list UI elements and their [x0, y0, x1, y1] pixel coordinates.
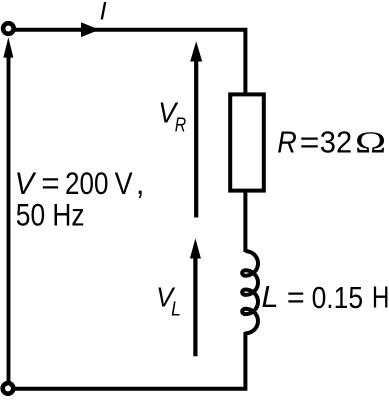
svg-text:0.15: 0.15: [312, 281, 364, 315]
svg-text:L: L: [262, 280, 279, 314]
svg-text:200: 200: [65, 165, 108, 201]
wire: left vertical (source branch): [7, 50, 11, 381]
svg-text:=: =: [300, 126, 320, 160]
svg-text:H: H: [372, 281, 389, 315]
svg-text:,: ,: [136, 165, 145, 201]
svg-text:Ω: Ω: [354, 126, 386, 160]
arrowhead: current I on top wire: [81, 22, 99, 37]
svg-text:V: V: [15, 165, 37, 201]
inductor L1 (coil, 4 turns): [242, 251, 258, 333]
svg-text:50 Hz: 50 Hz: [16, 197, 85, 233]
svg-text:V: V: [115, 165, 133, 201]
wire: inductor down + bottom horizontal to terminal: [15, 332, 246, 389]
svg-text:R: R: [277, 126, 297, 160]
arrow VL (voltage across inductor, points up): [193, 255, 197, 356]
svg-text:R: R: [175, 114, 186, 136]
terminal (top-left): [3, 23, 14, 34]
resistor R1 (rectangle): [230, 94, 264, 190]
svg-text:=: =: [287, 281, 305, 315]
wire: resistor to inductor: [243, 190, 247, 252]
svg-text:=: =: [41, 165, 59, 201]
svg-text:L: L: [171, 299, 181, 321]
arrowhead on source wire (points up at top terminal): [3, 37, 13, 57]
terminal (bottom-left): [3, 383, 14, 394]
svg-text:32: 32: [320, 126, 352, 160]
svg-text:I: I: [100, 0, 107, 25]
arrow VR (voltage across resistor, points up): [194, 58, 198, 218]
wire: top horizontal + right branch down to resistor: [15, 30, 246, 93]
